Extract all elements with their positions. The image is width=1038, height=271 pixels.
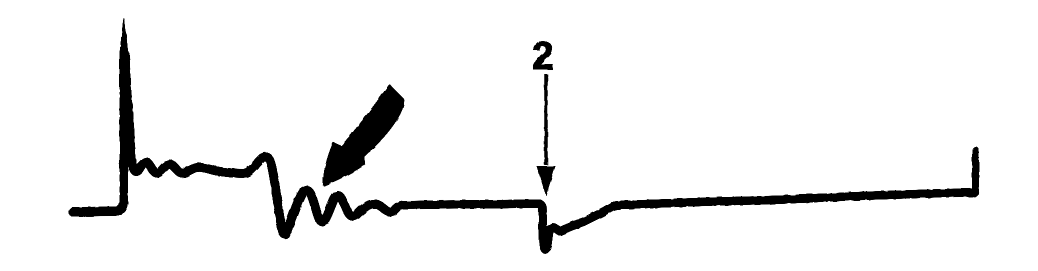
waveform trace: spike downstroke and oscillations xyxy=(125,54,402,234)
waveform trace: spike apex taper xyxy=(120,18,129,58)
waveform trace: left baseline xyxy=(73,207,119,217)
svg-text:2: 2 xyxy=(532,35,554,78)
waveform trace: mid baseline, notch at marker 2, recovery and long right segment xyxy=(402,193,975,250)
end tick (right vertical mark) xyxy=(972,150,979,194)
waveform trace: spike upstroke xyxy=(116,52,124,211)
thick pointer arrow xyxy=(324,85,404,186)
thin marker arrow under 2 xyxy=(544,74,548,165)
